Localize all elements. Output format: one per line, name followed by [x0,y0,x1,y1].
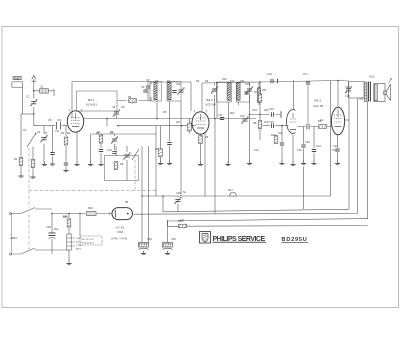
svg-text:C2: C2 [40,85,44,89]
svg-text:UCF 80: UCF 80 [205,103,216,107]
svg-text:C10: C10 [176,82,181,86]
svg-text:S1: S1 [23,128,27,132]
svg-text:B4 3: B4 3 [315,99,322,103]
svg-text:47p: 47p [57,118,62,122]
svg-text:50p: 50p [230,111,235,115]
svg-text:PHILIPS SERVICE: PHILIPS SERVICE [213,236,266,243]
svg-text:UY42 + GY41: UY42 + GY41 [111,237,128,241]
svg-text:C22: C22 [305,140,310,144]
svg-text:R10: R10 [271,133,276,137]
svg-text:R6: R6 [155,147,159,151]
svg-text:47p: 47p [55,129,60,133]
svg-text:R19: R19 [88,206,93,210]
svg-text:2M: 2M [176,120,180,124]
svg-text:C30: C30 [171,237,176,241]
svg-text:C9: C9 [146,78,150,82]
svg-text:C13: C13 [107,148,112,152]
svg-text:C17: C17 [303,72,308,76]
svg-text:C22: C22 [297,148,302,152]
svg-text:C14: C14 [267,72,272,76]
svg-text:0,2: 0,2 [320,118,324,122]
svg-text:C4: C4 [44,131,48,135]
svg-text:R2: R2 [67,131,71,135]
svg-text:R04: R04 [118,230,124,234]
svg-text:1k4: 1k4 [63,214,68,218]
svg-text:C25: C25 [176,191,181,195]
svg-text:Regelwiderst.: Regelwiderst. [82,242,96,245]
svg-text:C21: C21 [254,148,259,152]
svg-text:UCL 82: UCL 82 [313,104,324,108]
svg-text:C6: C6 [48,118,52,122]
svg-text:MΩ 2: MΩ 2 [76,249,82,251]
svg-text:C23: C23 [333,144,338,148]
svg-text:R4: R4 [128,95,132,99]
svg-text:1M: 1M [278,131,282,135]
svg-text:220V: 220V [10,236,18,240]
svg-text:24V 117 107: 24V 117 107 [82,239,95,241]
svg-text:R8: R8 [253,121,257,125]
svg-text:C15: C15 [269,107,274,111]
svg-text:S7: S7 [167,79,171,83]
svg-text:R5: R5 [163,110,167,114]
svg-text:200: 200 [264,108,269,112]
svg-text:UY 42: UY 42 [116,226,125,230]
svg-text:C20: C20 [245,82,250,86]
svg-text:C13: C13 [252,108,257,112]
svg-text:C16: C16 [269,120,274,124]
svg-text:C1: C1 [26,95,30,99]
svg-text:C12: C12 [240,114,245,118]
svg-text:R7: R7 [254,90,258,94]
svg-text:BD295U: BD295U [282,237,308,243]
svg-text:B5: B5 [125,200,129,204]
svg-text:C11: C11 [218,113,223,117]
svg-text:50μ: 50μ [54,227,59,231]
svg-text:C27: C27 [345,94,350,98]
svg-text:S10: S10 [230,79,235,83]
svg-text:C23: C23 [332,148,337,152]
svg-text:C9: C9 [141,85,145,89]
svg-text:C8: C8 [112,105,116,109]
svg-text:C8: C8 [121,105,125,109]
svg-text:UCH 81: UCH 81 [86,103,97,107]
svg-text:C26: C26 [345,85,350,89]
svg-text:R17: R17 [228,188,233,192]
svg-text:S20: S20 [359,98,364,101]
svg-text:B4 2: B4 2 [207,98,214,102]
svg-text:2,7kΩ: 2,7kΩ [76,245,82,247]
svg-text:S21: S21 [369,75,375,79]
svg-text:100: 100 [264,120,269,124]
svg-text:R3: R3 [96,131,100,135]
svg-text:C7: C7 [110,131,114,135]
svg-text:C24: C24 [316,144,321,148]
svg-text:1k2: 1k2 [180,218,185,222]
svg-text:R5: R5 [120,162,124,166]
svg-text:C28: C28 [46,225,51,229]
svg-text:B4 1: B4 1 [88,98,95,102]
svg-text:S6: S6 [155,79,159,83]
svg-text:S11: S11 [240,79,245,83]
svg-text:R6: R6 [205,135,209,139]
svg-text:S9: S9 [196,79,200,83]
svg-text:TA05: TA05 [14,76,21,80]
svg-text:20k: 20k [262,88,267,92]
svg-text:C29: C29 [147,237,152,241]
svg-text:S10: S10 [222,77,227,81]
svg-text:R2: R2 [61,131,65,135]
svg-text:R1: R1 [14,157,18,161]
svg-text:C4: C4 [37,130,41,134]
svg-text:S9: S9 [205,79,209,83]
